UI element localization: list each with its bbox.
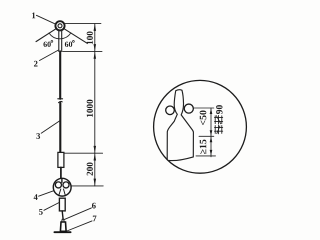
pole lower section xyxy=(59,103,61,153)
note glyph niu (drawn) xyxy=(215,125,223,134)
link line to pulley xyxy=(60,167,62,178)
dimension text 1000 xyxy=(87,100,93,117)
detail text <50 xyxy=(200,110,207,125)
extension line top (eyelet level) xyxy=(65,23,101,25)
note glyph zhuan (drawn) xyxy=(215,115,223,124)
pulley stub xyxy=(61,179,63,182)
detail extension line top xyxy=(194,107,214,109)
detail dimension line xyxy=(210,108,212,157)
flattened pole end profile xyxy=(167,90,193,161)
callout 6 xyxy=(64,203,96,220)
dimension line xyxy=(94,24,96,186)
ground line xyxy=(54,231,70,233)
detail left eye xyxy=(166,106,175,115)
callout 4 xyxy=(34,191,54,200)
pole upper section xyxy=(59,51,61,98)
detail extension line middle xyxy=(199,135,214,137)
right guy wire xyxy=(64,29,87,43)
pulley inner V lines xyxy=(59,189,66,196)
label 60 left xyxy=(43,41,52,47)
callout 1 xyxy=(32,13,56,25)
callout 5 xyxy=(39,203,59,215)
dimension text 100 xyxy=(87,31,93,44)
extension line at wire anchor level xyxy=(63,50,102,52)
pulley left eye xyxy=(55,182,61,188)
pole break symbol xyxy=(58,99,63,103)
base flare xyxy=(62,219,64,222)
detail right eye xyxy=(184,104,193,113)
base block (7) xyxy=(60,222,66,231)
pulley right eye xyxy=(63,182,69,188)
detail text >=15 xyxy=(200,140,207,154)
dimension text 200 xyxy=(87,162,93,175)
link rod (6) xyxy=(61,211,64,219)
top eyelet ring xyxy=(55,21,64,30)
pulley block circle (4) xyxy=(53,178,71,196)
dimension arrows xyxy=(94,24,97,186)
detail dimension arrows xyxy=(210,108,213,155)
clamp rect (5) xyxy=(59,198,65,211)
detail view circle xyxy=(154,80,247,173)
note text 90 (rotated) xyxy=(216,105,222,114)
label 60 right xyxy=(65,41,74,47)
extension line at pulley level xyxy=(72,185,104,187)
detail extension line bottom xyxy=(196,155,216,157)
60-degree angle arc xyxy=(49,33,71,39)
sleeve ferrule xyxy=(58,152,64,167)
callout 3 xyxy=(36,121,59,139)
pole upper tube (double line) xyxy=(59,30,62,51)
callout 7 xyxy=(67,216,97,231)
extension line at sleeve level xyxy=(64,152,102,154)
callout 2 xyxy=(34,50,58,66)
left guy wire xyxy=(36,29,56,42)
